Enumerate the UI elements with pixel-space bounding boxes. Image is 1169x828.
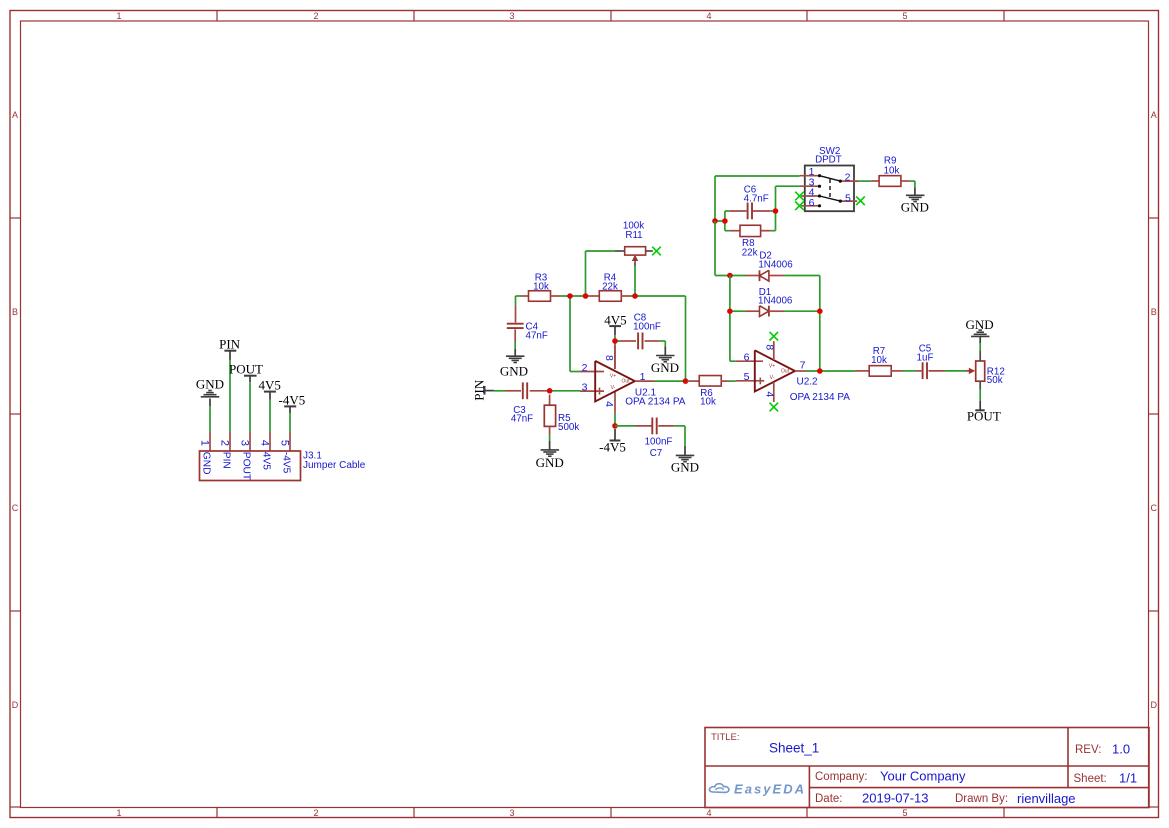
svg-text:rienvillage: rienvillage xyxy=(1017,791,1076,806)
svg-text:4: 4 xyxy=(603,401,615,407)
svg-text:POUT: POUT xyxy=(229,362,263,377)
svg-text:PIN: PIN xyxy=(221,452,232,469)
svg-text:10k: 10k xyxy=(871,355,887,366)
svg-text:C7: C7 xyxy=(650,448,663,459)
svg-text:3: 3 xyxy=(238,440,250,446)
svg-text:6: 6 xyxy=(744,352,750,364)
svg-text:8: 8 xyxy=(603,355,615,361)
svg-text:Your Company: Your Company xyxy=(880,769,966,784)
svg-text:22k: 22k xyxy=(742,248,758,259)
svg-text:4: 4 xyxy=(706,11,711,21)
svg-text:7: 7 xyxy=(800,360,806,372)
svg-text:4.7nF: 4.7nF xyxy=(744,194,769,205)
svg-text:-4V5: -4V5 xyxy=(281,452,292,474)
svg-text:3: 3 xyxy=(509,11,514,21)
svg-text:4: 4 xyxy=(258,440,270,446)
svg-text:100nF: 100nF xyxy=(645,437,673,448)
svg-text:2019-07-13: 2019-07-13 xyxy=(862,791,929,806)
svg-text:D: D xyxy=(1150,700,1157,710)
svg-text:A: A xyxy=(1151,110,1157,120)
svg-text:Drawn By:: Drawn By: xyxy=(955,793,1008,805)
svg-text:10k: 10k xyxy=(533,282,549,293)
svg-text:POUT: POUT xyxy=(241,452,252,480)
svg-text:C: C xyxy=(1150,503,1157,513)
svg-text:GND: GND xyxy=(500,364,528,379)
svg-text:500k: 500k xyxy=(558,422,579,433)
svg-text:Sheet:: Sheet: xyxy=(1074,773,1107,785)
svg-text:V+: V+ xyxy=(610,373,616,379)
svg-text:1N4006: 1N4006 xyxy=(758,296,793,307)
svg-text:PIN: PIN xyxy=(219,337,241,352)
svg-text:1: 1 xyxy=(116,808,121,818)
svg-text:POUT: POUT xyxy=(967,408,1001,423)
svg-text:4: 4 xyxy=(763,391,775,397)
svg-text:2: 2 xyxy=(313,808,318,818)
svg-text:2: 2 xyxy=(313,11,318,21)
svg-text:47nF: 47nF xyxy=(526,331,548,342)
svg-text:Out: Out xyxy=(621,378,630,384)
svg-text:B: B xyxy=(1151,307,1157,317)
svg-text:3: 3 xyxy=(509,808,514,818)
svg-text:1N4006: 1N4006 xyxy=(758,260,793,271)
svg-text:5: 5 xyxy=(902,808,907,818)
svg-text:2: 2 xyxy=(845,172,851,184)
svg-text:1/1: 1/1 xyxy=(1119,771,1137,786)
svg-text:GND: GND xyxy=(196,376,224,391)
svg-text:1: 1 xyxy=(116,11,121,21)
svg-text:4V5: 4V5 xyxy=(259,378,281,393)
svg-text:REV:: REV: xyxy=(1075,744,1101,756)
svg-text:22k: 22k xyxy=(602,282,618,293)
svg-text:V+: V+ xyxy=(769,364,775,370)
svg-text:C: C xyxy=(12,503,19,513)
svg-text:4: 4 xyxy=(706,808,711,818)
svg-text:U2.2: U2.2 xyxy=(797,377,819,388)
svg-text:GND: GND xyxy=(201,452,212,475)
svg-text:DPDT: DPDT xyxy=(815,154,842,165)
svg-text:3: 3 xyxy=(582,382,588,394)
svg-text:10k: 10k xyxy=(884,166,900,177)
svg-text:V-: V- xyxy=(611,385,616,391)
svg-text:4V5: 4V5 xyxy=(261,452,272,470)
svg-text:-4V5: -4V5 xyxy=(279,392,306,407)
svg-text:-4V5: -4V5 xyxy=(599,439,626,454)
svg-text:Date:: Date: xyxy=(815,793,843,805)
svg-text:GND: GND xyxy=(671,460,699,475)
svg-text:1.0: 1.0 xyxy=(1112,742,1130,757)
svg-text:OPA 2134 PA: OPA 2134 PA xyxy=(790,392,851,403)
svg-text:V-: V- xyxy=(770,375,775,381)
svg-text:Out: Out xyxy=(781,368,790,374)
svg-text:PIN: PIN xyxy=(471,379,486,401)
svg-text:1: 1 xyxy=(198,440,210,446)
svg-text:D: D xyxy=(12,700,19,710)
svg-text:GND: GND xyxy=(966,317,994,332)
svg-text:1uF: 1uF xyxy=(917,352,934,363)
svg-text:5: 5 xyxy=(902,11,907,21)
svg-text:GND: GND xyxy=(901,200,929,215)
svg-text:A: A xyxy=(12,110,18,120)
svg-text:Jumper Cable: Jumper Cable xyxy=(303,460,366,471)
svg-text:50k: 50k xyxy=(987,375,1003,386)
svg-text:Sheet_1: Sheet_1 xyxy=(769,741,819,756)
svg-text:GND: GND xyxy=(536,455,564,470)
svg-text:2: 2 xyxy=(582,362,588,374)
svg-text:TITLE:: TITLE: xyxy=(711,732,740,743)
svg-text:8: 8 xyxy=(763,344,775,350)
svg-text:4V5: 4V5 xyxy=(604,313,626,328)
svg-text:OPA 2134 PA: OPA 2134 PA xyxy=(625,397,686,408)
svg-text:B: B xyxy=(12,307,18,317)
svg-text:47nF: 47nF xyxy=(511,414,533,425)
svg-text:10k: 10k xyxy=(700,396,716,407)
svg-text:100nF: 100nF xyxy=(633,321,661,332)
svg-text:GND: GND xyxy=(651,360,679,375)
svg-text:Company:: Company: xyxy=(815,771,867,783)
svg-text:5: 5 xyxy=(845,193,851,205)
svg-text:R11: R11 xyxy=(625,230,642,241)
svg-text:5: 5 xyxy=(278,440,290,446)
svg-text:6: 6 xyxy=(809,197,815,209)
svg-text:2: 2 xyxy=(218,440,230,446)
svg-text:5: 5 xyxy=(744,371,750,383)
